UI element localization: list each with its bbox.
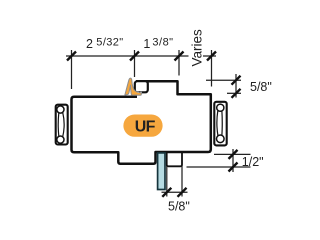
tick at 211.5,56 — [207, 52, 216, 61]
svg-text:5/8": 5/8" — [168, 200, 190, 214]
tick at 166.8,192.3 — [162, 188, 171, 197]
bottom 5/8 dimension line — [162, 191, 188, 193]
tick at 236,80.2 — [232, 76, 241, 85]
left compression seal bracket — [56, 105, 68, 145]
orange weatherstrip seal — [125, 78, 141, 95]
tick at 179,56 — [175, 52, 184, 61]
bottom 5/8 extension line left — [166, 166, 168, 196]
svg-text:2: 2 — [86, 37, 93, 51]
dimension extension line x=211.5 — [211, 50, 213, 87]
right compression seal bracket — [214, 102, 226, 146]
svg-text:3/8": 3/8" — [152, 37, 173, 49]
tick at 182,192.3 — [178, 188, 187, 197]
half inch extension line upper — [214, 153, 251, 155]
dimension extension line x=134.5 — [134, 50, 136, 77]
svg-text:5/32": 5/32" — [96, 37, 123, 49]
right 5/8 extension line lower — [227, 92, 241, 94]
teal insert — [158, 153, 165, 190]
weatherstrip kerf box — [135, 81, 148, 92]
right 5/8 dimension line — [235, 74, 237, 98]
seal foot hatch (gray) — [137, 91, 143, 93]
tick at 233,167 — [229, 163, 238, 172]
svg-text:UF: UF — [135, 118, 156, 135]
svg-text:1: 1 — [143, 37, 150, 51]
right 5/8 extension line upper — [206, 79, 241, 81]
bottom 5/8 extension line right — [181, 166, 183, 196]
tick at 134.5,56 — [130, 52, 139, 61]
svg-text:1/2": 1/2" — [242, 155, 264, 169]
dimension extension line x=179 — [178, 50, 180, 76]
top dimension line — [66, 55, 216, 57]
Varies label background — [189, 30, 204, 68]
UF label pill — [123, 115, 162, 137]
svg-text:5/8": 5/8" — [250, 80, 272, 94]
tick at 233,154.4 — [229, 150, 238, 159]
tick at 71.5,56 — [67, 52, 76, 61]
half inch dimension line — [232, 149, 234, 172]
bottom groove box — [167, 153, 182, 166]
half inch extension line lower — [187, 166, 251, 168]
tick at 236,93.3 — [232, 89, 241, 98]
svg-text:Varies: Varies — [189, 29, 204, 67]
dimension extension line x=71.5 — [71, 50, 73, 89]
frame profile outline — [72, 81, 211, 164]
